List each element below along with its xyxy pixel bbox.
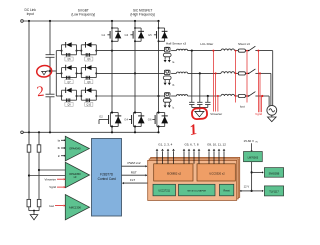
- svg-text:TLV1117: TLV1117: [269, 191, 279, 194]
- svg-text:SN6505B: SN6505B: [269, 173, 280, 176]
- svg-text:15-60 V: 15-60 V: [244, 139, 255, 143]
- svg-text:Q6: Q6: [87, 58, 91, 61]
- svg-text:OPA4340: OPA4340: [69, 147, 81, 151]
- svg-text:Vgrid: Vgrid: [255, 112, 262, 116]
- svg-text:Reset: Reset: [223, 189, 230, 192]
- svg-text:G5: G5: [148, 33, 152, 37]
- svg-text:Ia: Ia: [58, 138, 61, 142]
- svg-text:Q8: Q8: [87, 81, 91, 84]
- svg-text:LCL Filter: LCL Filter: [200, 42, 213, 46]
- svg-text:Ib: Ib: [58, 146, 61, 150]
- svg-text:Shunt x3: Shunt x3: [238, 42, 250, 46]
- svg-text:SN74LVC126APWR: SN74LVC126APWR: [187, 189, 206, 192]
- svg-text:Vinverter: Vinverter: [210, 112, 222, 116]
- svg-text:Q10: Q10: [86, 104, 91, 107]
- svg-text:G6: G6: [148, 118, 152, 122]
- svg-text:F28377D: F28377D: [100, 172, 114, 176]
- svg-text:12 V: 12 V: [244, 184, 250, 188]
- svg-text:G5, 6, 7, 8: G5, 6, 7, 8: [184, 142, 198, 146]
- svg-text:RST: RST: [131, 170, 137, 174]
- svg-text:G4: G4: [124, 118, 128, 122]
- svg-text:PWM x12: PWM x12: [127, 161, 140, 165]
- svg-text:Input: Input: [27, 12, 34, 16]
- svg-text:Iout: Iout: [49, 204, 54, 208]
- svg-text:x3: x3: [73, 175, 76, 179]
- svg-text:Hall Sensor x3: Hall Sensor x3: [166, 41, 186, 45]
- svg-text:Control Card: Control Card: [98, 177, 116, 181]
- svg-text:UCC5320 x2: UCC5320 x2: [209, 171, 225, 175]
- svg-text:ISO5852 x2: ISO5852 x2: [167, 171, 182, 175]
- svg-text:(High Frequency): (High Frequency): [130, 12, 155, 16]
- svg-text:FLT: FLT: [130, 178, 135, 182]
- svg-text:(Low Frequency): (Low Frequency): [71, 12, 95, 16]
- svg-text:Vgrid: Vgrid: [49, 185, 56, 189]
- svg-text:G1: G1: [101, 33, 105, 37]
- svg-text:G3: G3: [124, 33, 128, 37]
- svg-text:Vinverter: Vinverter: [44, 177, 56, 181]
- svg-text:LM76003: LM76003: [248, 156, 259, 159]
- svg-text:Iout: Iout: [240, 104, 245, 108]
- svg-text:G9, 10, 11, 12: G9, 10, 11, 12: [207, 142, 226, 146]
- svg-text:G2: G2: [99, 115, 103, 119]
- svg-text:AMC1306: AMC1306: [69, 205, 81, 209]
- svg-text:UCC27211: UCC27211: [158, 189, 170, 192]
- svg-text:G1, 2, 3, 4: G1, 2, 3, 4: [158, 142, 172, 146]
